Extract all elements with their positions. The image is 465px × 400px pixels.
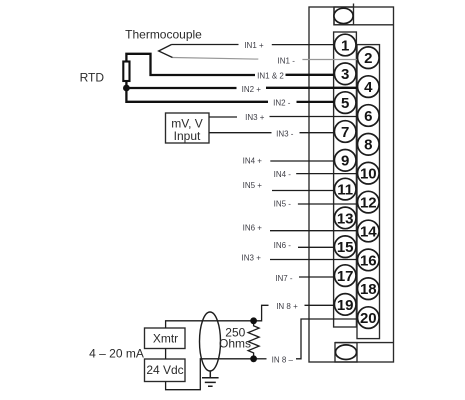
wire IN1&2 to pin 3 — [286, 74, 341, 76]
svg-text:11: 11 — [337, 182, 353, 199]
wire 24Vdc return — [166, 359, 254, 390]
bottom screw oval — [336, 345, 357, 360]
svg-text:4: 4 — [364, 79, 373, 96]
even terminal column body — [357, 45, 380, 339]
wire IN5+ to pin 11 — [272, 190, 340, 192]
svg-text:IN4 +: IN4 + — [243, 156, 263, 165]
svg-text:16: 16 — [360, 252, 377, 269]
pin 6 — [358, 105, 380, 127]
svg-text:2: 2 — [364, 50, 372, 67]
pin 8 — [358, 134, 380, 156]
svg-text:6: 6 — [364, 108, 372, 125]
svg-text:17: 17 — [337, 268, 354, 285]
wire IN8+ to pin 19 — [305, 304, 341, 306]
pin 3 — [334, 63, 356, 85]
pin 7 — [334, 121, 356, 143]
wire IN8- riser to pin 20 — [296, 319, 363, 359]
RTD resistor element — [123, 62, 129, 82]
top screw band — [334, 7, 394, 25]
wire IN3- to pin 7 — [300, 132, 341, 134]
svg-text:3: 3 — [341, 66, 349, 83]
pin 4 — [358, 76, 380, 98]
wire RTD bottom to node — [125, 81, 127, 88]
svg-text:1: 1 — [341, 37, 349, 54]
wire IN3+ to pin 6 — [270, 116, 364, 118]
svg-text:Ohms: Ohms — [219, 336, 251, 350]
pin 14 — [358, 220, 380, 242]
svg-text:8: 8 — [364, 137, 372, 154]
bottom screw band — [335, 342, 394, 344]
svg-text:9: 9 — [341, 153, 349, 170]
wire IN2- to pin 5 — [297, 101, 341, 103]
svg-text:14: 14 — [360, 223, 377, 240]
wire IN1+ to pin 1 — [272, 44, 340, 46]
svg-text:IN3 +: IN3 + — [242, 253, 262, 262]
svg-text:IN1 -: IN1 - — [278, 56, 296, 65]
wire RTD node to IN2+ — [126, 87, 236, 89]
wire IN6+ to pin 14 — [270, 230, 363, 232]
node loop top junction dot — [250, 317, 257, 324]
pin 11 — [334, 178, 356, 200]
svg-text:IN5 -: IN5 - — [274, 200, 292, 209]
Xmtr box — [145, 328, 186, 349]
svg-text:IN3 +: IN3 + — [245, 113, 265, 122]
svg-text:IN6 +: IN6 + — [243, 224, 263, 233]
pin 5 — [334, 92, 356, 114]
pin 19 — [334, 294, 356, 316]
wire IN4- to pin 10 — [296, 173, 363, 175]
svg-text:5: 5 — [341, 95, 349, 112]
pin 13 — [334, 207, 356, 229]
svg-text:20: 20 — [360, 310, 377, 327]
wire IN7+ to pin 16 — [270, 259, 363, 261]
svg-text:IN3 -: IN3 - — [276, 129, 294, 138]
top screw oval — [334, 8, 353, 23]
pin 18 — [358, 278, 380, 300]
svg-text:10: 10 — [360, 166, 377, 183]
wire mV+ to IN3+ — [209, 116, 237, 118]
svg-text:IN1 +: IN1 + — [244, 41, 264, 50]
bottom screw cell — [335, 343, 357, 362]
svg-text:IN6 -: IN6 - — [274, 241, 292, 250]
pin 15 — [334, 236, 356, 258]
terminal block outer housing — [309, 7, 394, 362]
svg-text:IN2 -: IN2 - — [273, 99, 291, 108]
ground — [202, 371, 219, 386]
svg-text:IN2 +: IN2 + — [242, 85, 262, 94]
wire TC- lead — [173, 58, 259, 60]
cable shield ellipse — [200, 312, 221, 371]
svg-text:4 – 20 mA: 4 – 20 mA — [89, 347, 144, 361]
svg-text:13: 13 — [337, 210, 354, 227]
svg-text:IN7 -: IN7 - — [275, 274, 293, 283]
svg-text:15: 15 — [337, 239, 354, 256]
wire IN4+ to pin 9 — [270, 160, 340, 162]
pin 20 — [358, 307, 380, 329]
mV V input box — [166, 113, 210, 143]
pin 12 — [358, 191, 380, 213]
svg-text:12: 12 — [360, 195, 377, 212]
svg-text:18: 18 — [360, 281, 377, 298]
svg-text:24 Vdc: 24 Vdc — [146, 363, 183, 377]
wire RTD node down to IN2- — [126, 88, 268, 102]
node loop bottom junction dot — [250, 355, 257, 362]
node RTD junction dot — [123, 85, 130, 92]
svg-text:IN 8 –: IN 8 – — [272, 356, 294, 365]
svg-text:IN5 +: IN5 + — [243, 181, 263, 190]
wire IN6- to pin 15 — [298, 246, 340, 248]
svg-text:Thermocouple: Thermocouple — [125, 28, 202, 42]
wire RTD top loop — [126, 54, 255, 75]
svg-text:7: 7 — [341, 124, 349, 141]
pin 16 — [358, 249, 380, 271]
top screw cell tick — [353, 4, 355, 8]
pin 17 — [334, 265, 356, 287]
wire IN7- to pin 17 — [299, 276, 340, 278]
wire IN2+ to pin 4 — [266, 87, 363, 89]
svg-text:IN1 & 2: IN1 & 2 — [257, 72, 284, 81]
wire IN1- to pin 2 — [302, 59, 363, 61]
wire IN5- to pin 12 — [298, 203, 363, 205]
wire IN8+ riser — [254, 305, 269, 321]
svg-text:IN 8 +: IN 8 + — [276, 302, 298, 311]
svg-text:RTD: RTD — [80, 70, 105, 84]
svg-text:IN4 -: IN4 - — [274, 170, 292, 179]
odd terminal column body — [334, 32, 357, 327]
wire mV- to IN3- — [209, 132, 272, 134]
pin 9 — [334, 150, 356, 172]
thermocouple junction symbol — [159, 45, 173, 58]
wire Xmtr to 24Vdc — [165, 349, 167, 360]
wire IN8- stub — [254, 358, 267, 360]
pin 10 — [358, 162, 380, 184]
svg-text:Input: Input — [174, 129, 201, 143]
pin 1 — [334, 34, 356, 56]
svg-text:Xmtr: Xmtr — [153, 331, 178, 345]
resistor 250 Ohms — [248, 322, 259, 359]
24 Vdc box — [145, 359, 186, 382]
wire TC+ to IN1+ — [172, 44, 239, 46]
svg-text:19: 19 — [337, 297, 354, 314]
wire Xmtr to loop top — [166, 321, 254, 328]
pin 2 — [358, 47, 380, 69]
top screw cell — [334, 7, 354, 25]
